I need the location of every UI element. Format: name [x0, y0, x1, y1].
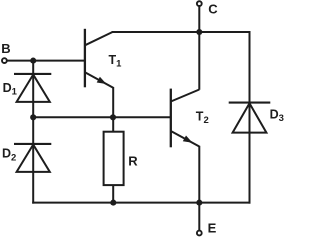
resistor R — [104, 132, 124, 185]
wire: B terminal to T1 base — [7, 60, 85, 62]
wire: right vertical branch for D3 — [249, 31, 251, 204]
junction node: R bottom on emitter rail — [110, 200, 116, 206]
svg-text:R: R — [128, 154, 138, 169]
wire: left vertical bus through D1 and D2 — [32, 61, 34, 204]
wire: C terminal down through top rail to T2 collector — [198, 6, 200, 90]
svg-text:T2: T2 — [196, 109, 209, 126]
terminal C circle — [197, 1, 202, 6]
wire: mid horizontal to T2 base — [33, 116, 170, 118]
svg-text:T1: T1 — [109, 53, 123, 70]
transistor T2 — [171, 89, 200, 148]
terminal B circle — [2, 58, 7, 63]
wire: rail down to E terminal — [198, 203, 200, 230]
svg-text:C: C — [208, 1, 218, 16]
junction node: E on bottom rail — [196, 200, 202, 206]
svg-text:D3: D3 — [270, 108, 284, 125]
wire: bottom rail — [32, 202, 250, 204]
wire: resistor bottom to bottom rail — [112, 185, 114, 203]
svg-text:D2: D2 — [2, 147, 16, 164]
diode D1 — [14, 74, 51, 102]
diode D2 — [14, 144, 51, 172]
svg-text:D1: D1 — [3, 81, 18, 98]
wire: top rail — [112, 31, 251, 33]
junction node: D1/D2 midpoint to T2 base wire — [30, 114, 36, 120]
svg-text:B: B — [1, 41, 10, 56]
junction node: B wire / D1 anode — [30, 58, 36, 64]
transistor T1 — [85, 29, 113, 88]
wire: T1 emitter down to node — [112, 87, 114, 117]
wire: node to resistor top — [112, 117, 114, 131]
wire: T2 emitter down to bottom rail — [198, 146, 200, 203]
terminal E circle — [197, 231, 202, 236]
junction node: C on top rail — [196, 29, 202, 35]
diode D3 — [229, 103, 271, 133]
junction node: T1 emitter / R top — [110, 114, 116, 120]
svg-text:E: E — [208, 221, 217, 236]
